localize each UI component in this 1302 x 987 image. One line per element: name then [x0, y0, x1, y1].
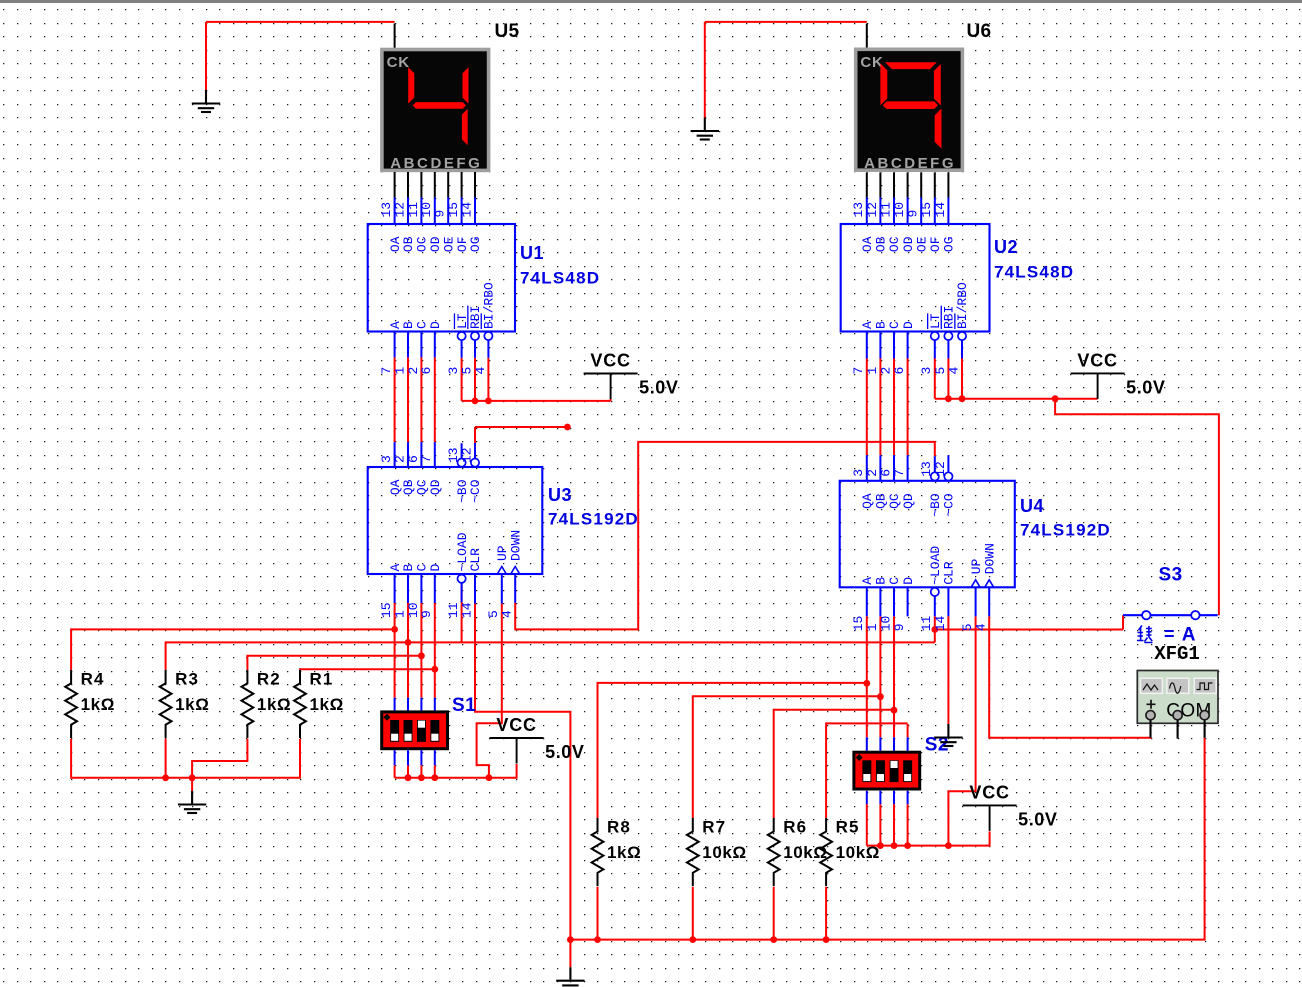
svg-text:1kΩ: 1kΩ: [607, 843, 641, 862]
svg-text:R2: R2: [257, 669, 281, 688]
wire U4 UP to S2 rail: [948, 616, 975, 845]
svg-text:D: D: [901, 321, 916, 329]
ground G2: [691, 118, 719, 140]
svg-text:XFG1: XFG1: [1154, 643, 1200, 665]
DIP switch S1: [382, 712, 448, 749]
wire S1 bottom rail to VCC: [394, 765, 396, 777]
svg-text:D: D: [428, 564, 443, 572]
svg-text:U2: U2: [994, 237, 1018, 257]
resistor R8: [592, 818, 604, 886]
S1 pin stubs: [395, 698, 435, 766]
display U5 pins: [395, 172, 475, 198]
wire R2 net: [247, 656, 421, 670]
7-seg display U5: [382, 50, 489, 171]
ground G5: [556, 967, 584, 987]
svg-text:14: 14: [933, 615, 948, 631]
U3 pin stubs: [395, 442, 516, 603]
ground G3: [178, 791, 206, 813]
svg-text:1kΩ: 1kΩ: [257, 695, 291, 714]
svg-text:OG: OG: [942, 237, 957, 253]
wire U4 CLR to ground: [947, 616, 949, 724]
DIP switch S2: [854, 752, 920, 789]
svg-text:OG: OG: [468, 237, 483, 253]
wire U2 A-D to U4 QA-QD: [866, 359, 868, 456]
svg-text:CK: CK: [860, 54, 883, 71]
svg-text:S1: S1: [452, 695, 476, 716]
svg-text:5.0V: 5.0V: [639, 378, 678, 398]
IC U4 74LS192D: [840, 481, 1015, 588]
VCC supply 3 (S1): [490, 738, 544, 764]
wire U3 CLR to bottom rail: [475, 604, 570, 940]
svg-text:=: =: [1164, 624, 1175, 644]
svg-text:U1: U1: [520, 243, 544, 263]
svg-text:5.0V: 5.0V: [1126, 377, 1165, 397]
IC U2 74LS48D: [841, 224, 990, 332]
svg-text:1kΩ: 1kΩ: [310, 695, 344, 714]
wire bottom ground rail: [570, 738, 1204, 940]
svg-text:5.0V: 5.0V: [1018, 809, 1057, 829]
svg-text:R5: R5: [836, 818, 860, 837]
svg-text:U3: U3: [548, 485, 572, 505]
wire R8 net: [598, 683, 867, 818]
7-seg display U6: [856, 49, 963, 170]
svg-text:QD: QD: [901, 493, 916, 509]
svg-text:VCC: VCC: [969, 782, 1009, 802]
S2 pin stubs: [867, 737, 908, 804]
wire S3 left to U4 ~LOAD: [1122, 615, 1124, 629]
resistor R1: [294, 670, 306, 738]
wire left resistor ground rail: [71, 739, 300, 778]
svg-text:U5: U5: [495, 21, 520, 42]
svg-text:12: 12: [933, 461, 948, 477]
S3 key label: [1137, 626, 1153, 643]
XFG1 terminals: [1151, 715, 1205, 738]
U1 pin stubs: [395, 198, 489, 358]
svg-text:BI/RBO: BI/RBO: [955, 282, 970, 329]
svg-text:~CO: ~CO: [468, 479, 483, 503]
resistor R3: [160, 670, 172, 738]
svg-text:4: 4: [974, 623, 989, 631]
svg-text:1kΩ: 1kΩ: [81, 695, 115, 714]
wire U6 CK to ground: [705, 21, 867, 23]
resistor R6: [768, 818, 780, 886]
wire R3 / LOAD net: [166, 642, 935, 670]
svg-text:ABCDEFG: ABCDEFG: [390, 155, 482, 172]
VCC supply 2 (U2): [1071, 373, 1125, 399]
svg-text:14: 14: [459, 202, 474, 218]
svg-text:1kΩ: 1kΩ: [175, 695, 209, 714]
svg-text:CLR: CLR: [468, 548, 483, 572]
svg-text:S3: S3: [1159, 565, 1183, 586]
svg-text:9: 9: [419, 610, 434, 618]
svg-text:QD: QD: [428, 479, 443, 495]
svg-text:4: 4: [500, 610, 515, 618]
svg-text:74LS48D: 74LS48D: [994, 263, 1074, 282]
ground G1: [192, 90, 220, 112]
svg-text:R6: R6: [783, 818, 807, 837]
wire U2 LT/RBI/BI to VCC: [934, 359, 936, 399]
wire U4 A-C to S2: [866, 616, 868, 737]
svg-text:D: D: [901, 577, 916, 585]
wire U4 DOWN to XFG1: [989, 616, 1151, 737]
wire R4 net: [71, 629, 395, 670]
wire U3 ~CO stub net: [474, 427, 476, 443]
svg-text:DOWN: DOWN: [508, 530, 523, 561]
VCC supply 1 (U1): [584, 374, 638, 400]
U2 pin stubs: [867, 198, 962, 359]
svg-text:R7: R7: [702, 818, 726, 837]
svg-text:74LS192D: 74LS192D: [548, 510, 639, 529]
display U6 pins: [867, 172, 949, 197]
svg-text:U6: U6: [967, 21, 992, 42]
svg-text:7: 7: [419, 455, 434, 463]
svg-text:10kΩ: 10kΩ: [702, 843, 746, 862]
svg-text:R3: R3: [175, 669, 199, 688]
svg-text:14: 14: [933, 202, 948, 218]
svg-text:12: 12: [459, 447, 474, 463]
svg-text:6: 6: [892, 367, 907, 375]
svg-text:VCC: VCC: [590, 351, 630, 371]
wire R5 net: [826, 723, 908, 818]
svg-text:4: 4: [473, 367, 488, 375]
svg-text:6: 6: [419, 367, 434, 375]
svg-text:5.0V: 5.0V: [545, 742, 584, 762]
svg-text:~CO: ~CO: [942, 493, 957, 517]
svg-text:7: 7: [892, 469, 907, 477]
ground G4 (U4 CLR): [934, 724, 962, 746]
svg-text:4: 4: [946, 367, 961, 375]
svg-text:14: 14: [459, 602, 474, 618]
wire R7 net: [693, 696, 881, 818]
svg-text:CLR: CLR: [942, 561, 957, 585]
U4 pin stubs: [867, 455, 989, 616]
svg-text:VCC: VCC: [496, 715, 536, 735]
svg-text:D: D: [428, 321, 443, 329]
resistor R4: [65, 670, 77, 738]
svg-text:9: 9: [892, 623, 907, 631]
wire U3 DOWN to U4 ~BO: [515, 442, 935, 630]
svg-text:ABCDEFG: ABCDEFG: [864, 155, 956, 172]
resistor R5: [820, 818, 832, 886]
wire U5 CK to ground: [206, 21, 395, 23]
wire U3 UP to S1 rail: [477, 604, 502, 778]
wire U4 ~LOAD down to LOAD line: [934, 616, 936, 642]
svg-text:10kΩ: 10kΩ: [836, 843, 880, 862]
resistor R7: [687, 818, 699, 886]
svg-text:U4: U4: [1020, 496, 1044, 516]
svg-text:74LS48D: 74LS48D: [520, 269, 600, 288]
svg-text:10kΩ: 10kΩ: [783, 843, 827, 862]
IC U1 74LS48D: [368, 224, 515, 332]
wire S2 bottom rail to VCC: [866, 804, 868, 845]
svg-text:VCC: VCC: [1077, 350, 1117, 370]
VCC supply 4 (S2): [963, 805, 1017, 831]
wire R1 net: [300, 668, 435, 671]
wire U3 ~LOAD down: [461, 583, 463, 642]
IC U3 74LS192D: [368, 467, 543, 574]
wire VCC tap to S3: [1055, 399, 1219, 616]
svg-text:R8: R8: [607, 818, 631, 837]
svg-text:R1: R1: [310, 669, 334, 688]
svg-text:BI/RBO: BI/RBO: [482, 282, 497, 329]
wire U1 LT/RBI/BI to VCC: [461, 358, 463, 401]
svg-text:CK: CK: [387, 54, 410, 71]
svg-text:DOWN: DOWN: [982, 543, 997, 574]
wire right resistor bottoms: [597, 887, 599, 940]
wire U1 A-D to U3 QA-QD: [394, 357, 396, 442]
resistor R2: [242, 670, 254, 738]
svg-text:74LS192D: 74LS192D: [1020, 521, 1111, 540]
svg-text:R4: R4: [81, 669, 105, 688]
wire R6 net: [774, 710, 894, 818]
junction dots: [391, 626, 398, 633]
switch S3: [1123, 614, 1218, 616]
wire U3 A-D to S1: [394, 603, 396, 698]
